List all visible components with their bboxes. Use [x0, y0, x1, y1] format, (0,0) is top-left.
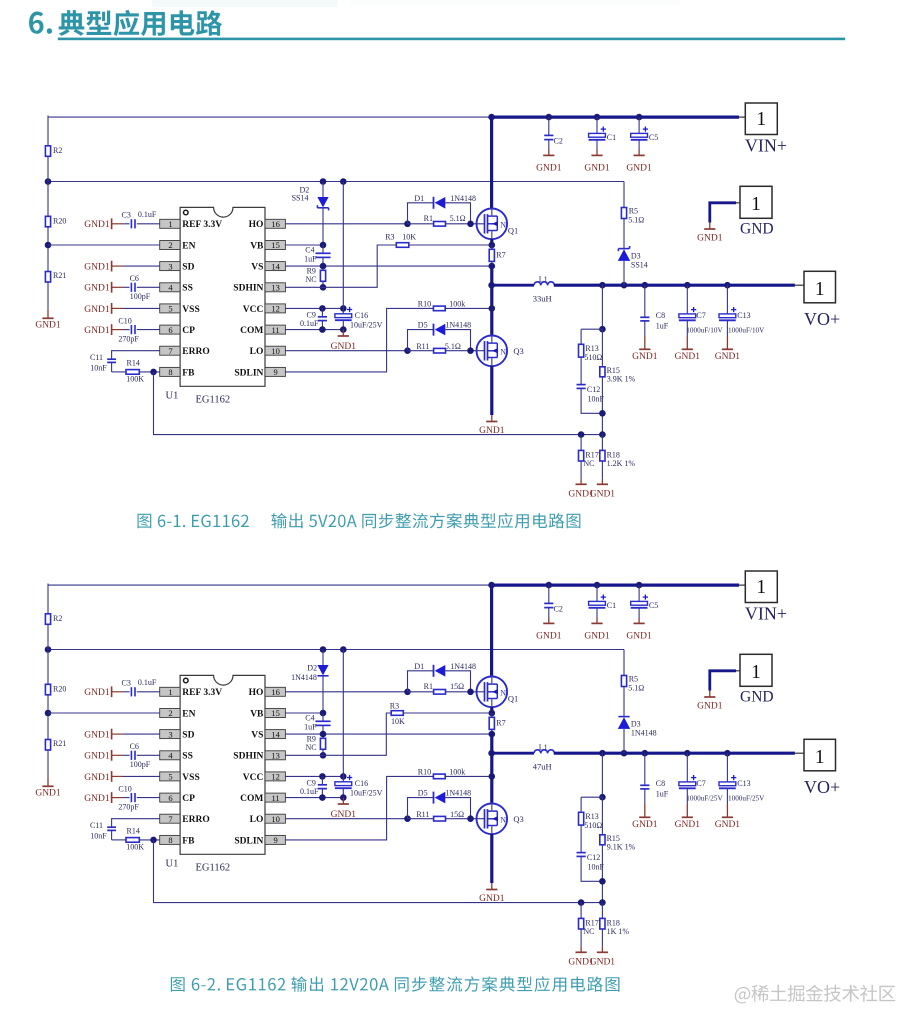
pin 8 FB (fig 6-1) — [160, 367, 195, 378]
capacitor C1 (fig 6-2) — [589, 585, 617, 617]
capacitor C12 (fig 6-1) — [577, 385, 605, 404]
svg-text:GND1: GND1 — [84, 220, 110, 230]
U1 reference designator (fig 6-2) — [166, 858, 179, 869]
svg-text:1N4148: 1N4148 — [291, 673, 317, 682]
wire FB feedback run (fig 6-1) — [154, 372, 603, 435]
svg-text:C4: C4 — [305, 245, 314, 254]
svg-text:1000uF/25V: 1000uF/25V — [728, 794, 765, 802]
ground GND1 under C2 (fig 6-2) — [536, 618, 562, 642]
capacitor C4 (fig 6-2) — [304, 713, 331, 734]
capacitor C5 (fig 6-1) — [631, 117, 659, 149]
junction VCC rail / D2 (fig 6-1) — [320, 178, 327, 185]
svg-text:C10: C10 — [118, 317, 131, 326]
svg-text:R5: R5 — [629, 207, 638, 216]
svg-text:5.1Ω: 5.1Ω — [450, 214, 466, 223]
svg-text:R14: R14 — [127, 358, 140, 367]
wire R10 to switch node (fig 6-1) — [445, 307, 492, 309]
power port GND1 at VSS (fig 6-2) — [84, 771, 159, 783]
svg-text:VIN+: VIN+ — [745, 136, 787, 156]
resistor R10 (fig 6-2) — [418, 768, 465, 779]
heading underline — [58, 38, 845, 41]
resistor R14 (fig 6-2) — [126, 826, 144, 851]
resistor R14 (fig 6-1) — [126, 358, 144, 383]
svg-text:C6: C6 — [130, 274, 139, 283]
resistor R13 (fig 6-1) — [579, 344, 603, 362]
svg-text:COM: COM — [240, 794, 263, 804]
pin 13 SDHIN (fig 6-1) — [233, 283, 285, 294]
svg-text:15: 15 — [271, 708, 280, 718]
junction COM / C16 (fig 6-2) — [340, 794, 347, 801]
svg-text:SDLIN: SDLIN — [234, 836, 263, 846]
wire VCC rail (fig 6-2) — [48, 649, 624, 651]
svg-text:Q3: Q3 — [513, 814, 523, 824]
capacitor C2 (fig 6-2) — [544, 585, 563, 617]
wire R20 to R21 (fig 6-2) — [47, 695, 49, 740]
svg-text:C2: C2 — [554, 137, 563, 146]
resistor R1 (fig 6-2) — [408, 682, 465, 694]
junction switch node (fig 6-1) — [488, 282, 495, 289]
junction Q1 gate node (fig 6-2) — [467, 689, 474, 696]
wire VO+ output rail (fig 6-1) — [554, 284, 804, 287]
svg-text:8: 8 — [168, 367, 172, 377]
ground GND1 under C8 (fig 6-1) — [632, 336, 658, 362]
wire C11 to R14 (fig 6-1) — [112, 371, 126, 373]
svg-text:C4: C4 — [305, 713, 314, 722]
ground GND1 under R17 (fig 6-1) — [568, 479, 594, 500]
svg-text:15: 15 — [271, 240, 280, 250]
svg-text:47uH: 47uH — [533, 762, 552, 772]
svg-text:VCC: VCC — [243, 773, 264, 783]
svg-text:6: 6 — [168, 325, 172, 335]
svg-text:R1: R1 — [424, 214, 433, 223]
svg-text:11: 11 — [272, 325, 280, 335]
wire COM net (fig 6-1) — [285, 329, 343, 331]
svg-text:COM: COM — [240, 326, 263, 336]
svg-text:GND1: GND1 — [84, 752, 110, 762]
resistor R21 (fig 6-1) — [45, 271, 66, 282]
svg-text:GND1: GND1 — [632, 352, 658, 362]
svg-text:1: 1 — [168, 219, 172, 229]
junction switch node (fig 6-2) — [488, 750, 495, 757]
wire VB net (fig 6-1) — [285, 244, 323, 246]
inductor L1 (fig 6-1) — [533, 275, 555, 304]
svg-text:9: 9 — [273, 835, 277, 845]
pin 6 CP (fig 6-1) — [160, 325, 195, 336]
pin 12 VCC (fig 6-2) — [243, 772, 286, 783]
resistor R15 (fig 6-1) — [600, 329, 636, 384]
junction Q3 gate node (fig 6-1) — [467, 347, 474, 354]
wire FB feedback run (fig 6-2) — [154, 840, 603, 903]
wire R11 to Q3 gate (fig 6-2) — [446, 818, 485, 820]
svg-text:C5: C5 — [649, 133, 658, 142]
resistor R15 (fig 6-2) — [600, 797, 636, 852]
ground GND1 under C1 (fig 6-1) — [584, 150, 610, 174]
svg-text:VB: VB — [250, 241, 264, 251]
svg-text:GND1: GND1 — [84, 731, 110, 741]
resistor R20 (fig 6-2) — [45, 684, 66, 695]
transistor Q3 (fig 6-1) — [477, 336, 524, 367]
resistor R17 (fig 6-1) — [579, 450, 599, 468]
port VIN+ (fig 6-1) — [745, 103, 787, 156]
svg-text:0.1uF: 0.1uF — [300, 319, 319, 328]
wire VCC net (fig 6-2) — [285, 775, 343, 777]
junction R10 switch node (fig 6-1) — [489, 305, 496, 312]
wire C16 branch (fig 6-1) — [342, 182, 344, 314]
svg-text:C13: C13 — [737, 311, 750, 320]
wire VIN+ top rail (fig 6-2) — [48, 584, 745, 614]
svg-text:C6: C6 — [130, 742, 139, 751]
svg-text:10nF: 10nF — [90, 831, 107, 840]
diode D2 (fig 6-2) — [291, 650, 329, 714]
svg-text:SS14: SS14 — [631, 260, 648, 269]
svg-text:FB: FB — [182, 368, 195, 378]
svg-text:N: N — [500, 815, 506, 824]
wire D3 to VO rail (fig 6-1) — [623, 261, 625, 285]
svg-text:C7: C7 — [696, 779, 705, 788]
junction COM / C16 (fig 6-1) — [340, 326, 347, 333]
wire GND port lead (fig 6-2) — [710, 671, 740, 691]
ground GND1 under C7 (fig 6-2) — [675, 804, 701, 830]
svg-text:GND1: GND1 — [35, 789, 61, 799]
pin 1 REF 3.3V (fig 6-1) — [160, 219, 222, 230]
wire HO net (fig 6-2) — [285, 691, 407, 693]
svg-text:13: 13 — [271, 283, 280, 293]
ground GND1 under C5 (fig 6-2) — [626, 618, 652, 642]
svg-text:5: 5 — [168, 772, 172, 782]
svg-text:0.1uF: 0.1uF — [138, 678, 157, 687]
diode D5 1N4148 (fig 6-2) — [418, 789, 471, 804]
svg-text:FB: FB — [182, 836, 195, 846]
svg-text:9.1K 1%: 9.1K 1% — [607, 843, 636, 852]
svg-text:C12: C12 — [587, 385, 600, 394]
svg-text:510Ω: 510Ω — [584, 821, 602, 830]
pin 11 COM (fig 6-1) — [240, 325, 285, 336]
junction below R7 (fig 6-2) — [489, 731, 496, 738]
wire ERRO net (fig 6-2) — [112, 819, 160, 828]
svg-text:10nF: 10nF — [90, 363, 107, 372]
capacitor C1 (fig 6-1) — [589, 117, 617, 149]
pin 9 SDLIN (fig 6-1) — [234, 367, 285, 378]
svg-text:Q3: Q3 — [513, 346, 523, 356]
junction VCC rail / C16 branch (fig 6-1) — [340, 178, 347, 185]
svg-text:9: 9 — [273, 367, 277, 377]
wire D5 branch (fig 6-1) — [408, 330, 434, 351]
svg-text:C1: C1 — [607, 133, 616, 142]
resistor R13 (fig 6-2) — [579, 812, 603, 830]
wire COM net (fig 6-2) — [285, 797, 343, 799]
wire VCC rail to R5 (fig 6-2) — [623, 650, 625, 676]
pin 3 SD (fig 6-1) — [160, 261, 195, 272]
wire D3 to VO rail (fig 6-2) — [623, 729, 625, 753]
junction Q1 gate node (fig 6-1) — [467, 221, 474, 228]
svg-text:14: 14 — [271, 261, 280, 271]
wire HO net (fig 6-1) — [285, 223, 407, 225]
junction VCC rail / R2 divider (fig 6-2) — [45, 646, 52, 653]
junction VCC / C9 (fig 6-1) — [319, 305, 326, 312]
junction VCC rail / R2 divider (fig 6-1) — [45, 178, 52, 185]
junction top rail / C2 (fig 6-1) — [546, 114, 553, 121]
svg-text:LO: LO — [250, 815, 264, 825]
resistor R21 (fig 6-2) — [45, 739, 66, 750]
junction VO rail / C7 (fig 6-1) — [684, 282, 691, 289]
wire R18 branch (fig 6-1) — [601, 435, 603, 451]
wire R13 branch top (fig 6-1) — [581, 329, 602, 344]
pin 15 VB (fig 6-1) — [250, 240, 285, 251]
svg-text:GND1: GND1 — [590, 957, 616, 967]
junction VO rail / D3 (fig 6-2) — [621, 750, 628, 757]
svg-text:12: 12 — [271, 304, 280, 314]
svg-text:GND1: GND1 — [675, 820, 701, 830]
svg-text:SD: SD — [182, 263, 194, 273]
svg-text:1000uF/10V: 1000uF/10V — [728, 326, 765, 334]
wire D1 to gate node (fig 6-1) — [445, 203, 470, 224]
power port GND1 at CP (fig 6-1) — [84, 324, 123, 336]
ground GND1 under C5 (fig 6-1) — [626, 150, 652, 174]
svg-text:D5: D5 — [418, 321, 428, 330]
svg-text:R14: R14 — [127, 826, 140, 835]
wire R15 to FB node (fig 6-1) — [601, 377, 603, 435]
svg-text:1N4148: 1N4148 — [631, 728, 657, 737]
svg-text:R13: R13 — [585, 812, 598, 821]
wire VCC net (fig 6-1) — [285, 307, 343, 309]
wire LO net (fig 6-2) — [285, 818, 407, 820]
wire R3 to switch sense (fig 6-1) — [409, 244, 492, 246]
svg-text:R18: R18 — [607, 918, 620, 927]
resistor R7 (fig 6-2) — [489, 713, 505, 734]
power port GND1 at SD (fig 6-1) — [84, 261, 159, 273]
svg-text:8: 8 — [168, 835, 172, 845]
svg-text:C3: C3 — [122, 678, 131, 687]
capacitor C7 (fig 6-2) — [679, 753, 724, 804]
svg-text:270pF: 270pF — [118, 803, 139, 812]
wire R17 to ground (fig 6-2) — [580, 929, 582, 947]
wire VIN+ top rail (fig 6-1) — [48, 116, 745, 146]
wire R21 to ground (fig 6-1) — [47, 282, 49, 309]
diode D3 (fig 6-1) — [618, 246, 648, 269]
svg-text:VB: VB — [250, 709, 264, 719]
junction VCC / C16 (fig 6-1) — [340, 305, 347, 312]
capacitor C9 (fig 6-1) — [300, 308, 327, 329]
wire D1 branch (fig 6-1) — [408, 203, 434, 224]
svg-text:D3: D3 — [631, 720, 641, 729]
svg-text:1: 1 — [168, 687, 172, 697]
junction VCC rail / C16 branch (fig 6-2) — [340, 646, 347, 653]
svg-text:N: N — [500, 220, 506, 229]
wire R13 to C12 (fig 6-1) — [580, 357, 582, 385]
svg-text:R20: R20 — [53, 684, 66, 693]
svg-text:R20: R20 — [53, 216, 66, 225]
svg-text:GND1: GND1 — [84, 773, 110, 783]
svg-text:L1: L1 — [539, 275, 548, 284]
wire switch node column (fig 6-1) — [490, 266, 493, 336]
wire SDLIN net (fig 6-2) — [285, 776, 433, 840]
svg-text:SD: SD — [182, 731, 194, 741]
svg-text:100K: 100K — [126, 843, 144, 852]
transistor Q3 (fig 6-2) — [477, 804, 524, 835]
wire R5 to D3 (fig 6-1) — [623, 219, 625, 249]
svg-text:R7: R7 — [496, 718, 505, 727]
port VO+ (fig 6-2) — [804, 739, 840, 797]
wire R1 to Q1 gate (fig 6-1) — [446, 223, 485, 225]
svg-text:Q1: Q1 — [508, 694, 518, 704]
junction FB / R18 (fig 6-2) — [599, 899, 606, 906]
resistor R3 (fig 6-2) — [390, 701, 405, 726]
svg-text:R10: R10 — [418, 300, 431, 309]
svg-text:GND1: GND1 — [536, 631, 562, 641]
U1 reference designator (fig 6-1) — [166, 390, 179, 401]
diode D2 (fig 6-1) — [292, 182, 329, 246]
svg-text:100k: 100k — [449, 300, 465, 309]
capacitor C3 (fig 6-1) — [122, 210, 160, 228]
svg-text:GND1: GND1 — [715, 820, 741, 830]
capacitor C8 (fig 6-1) — [640, 285, 669, 336]
capacitor C16 (fig 6-2) — [335, 775, 383, 798]
port VO+ (fig 6-1) — [804, 271, 840, 329]
wire R13 to C12 (fig 6-2) — [580, 825, 582, 853]
junction VS / C4 / R9 (fig 6-2) — [320, 731, 327, 738]
wire R5 to D3 (fig 6-2) — [623, 687, 625, 717]
wire VO to feedback divider (fig 6-1) — [601, 285, 603, 329]
transistor Q1 (fig 6-2) — [477, 677, 519, 708]
wire R2 to R20 (fig 6-1) — [47, 156, 49, 216]
resistor R20 (fig 6-1) — [45, 216, 66, 227]
capacitor C7 (fig 6-1) — [679, 285, 724, 336]
svg-text:GND1: GND1 — [584, 163, 610, 173]
capacitor C9 (fig 6-2) — [300, 776, 327, 797]
svg-text:C10: C10 — [118, 785, 131, 794]
svg-text:3: 3 — [168, 261, 172, 271]
junction VO rail / C8 (fig 6-2) — [642, 750, 649, 757]
watermark @稀土掘金技术社区 — [735, 985, 895, 1004]
wire Q1 drain (fig 6-1) — [490, 117, 493, 209]
junction above R7 (fig 6-1) — [489, 242, 496, 249]
svg-text:1uF: 1uF — [304, 723, 317, 732]
wire D1 branch (fig 6-2) — [408, 671, 434, 692]
pin 11 COM (fig 6-2) — [240, 793, 285, 804]
ground GND1 under R17 (fig 6-2) — [568, 947, 594, 968]
svg-text:ERRO: ERRO — [182, 815, 209, 825]
junction top rail / C5 (fig 6-1) — [636, 114, 643, 121]
wire D1 to gate node (fig 6-2) — [445, 671, 470, 692]
wire R10 to switch node (fig 6-2) — [445, 775, 492, 777]
wire R14 to FB (fig 6-2) — [139, 839, 159, 841]
ground GND1 under C16 (fig 6-2) — [331, 798, 357, 820]
svg-text:GND1: GND1 — [675, 352, 701, 362]
svg-text:L1: L1 — [539, 743, 548, 752]
svg-text:GND1: GND1 — [84, 688, 110, 698]
port GND (fig 6-2) — [740, 654, 774, 705]
transistor Q1 (fig 6-1) — [477, 209, 519, 240]
svg-text:C7: C7 — [696, 311, 705, 320]
svg-text:GND1: GND1 — [84, 284, 110, 294]
junction FB / R17 (fig 6-2) — [578, 899, 585, 906]
svg-text:100K: 100K — [126, 375, 144, 384]
svg-text:1N4148: 1N4148 — [445, 789, 471, 798]
svg-text:U1: U1 — [166, 858, 179, 869]
svg-text:14: 14 — [271, 729, 280, 739]
wire VO+ output rail (fig 6-2) — [554, 752, 804, 755]
svg-text:GND: GND — [740, 689, 774, 706]
junction FB / R18 (fig 6-1) — [599, 431, 606, 438]
ground GND1 under C1 (fig 6-2) — [584, 618, 610, 642]
capacitor C12 (fig 6-2) — [577, 853, 605, 872]
svg-text:270pF: 270pF — [118, 335, 139, 344]
svg-text:C16: C16 — [355, 311, 368, 320]
svg-text:C16: C16 — [355, 779, 368, 788]
svg-text:100k: 100k — [449, 768, 465, 777]
svg-text:10: 10 — [271, 346, 280, 356]
svg-text:GND1: GND1 — [35, 321, 61, 331]
pin 7 ERRO (fig 6-2) — [160, 814, 210, 825]
wire SDLIN net (fig 6-1) — [285, 308, 433, 372]
svg-text:VSS: VSS — [182, 305, 199, 315]
junction EN divider tap (fig 6-2) — [45, 710, 52, 717]
svg-text:5: 5 — [168, 304, 172, 314]
svg-text:R17: R17 — [585, 918, 598, 927]
svg-text:HO: HO — [249, 220, 264, 230]
svg-text:1000uF/25V: 1000uF/25V — [686, 794, 723, 802]
pin 6 CP (fig 6-2) — [160, 793, 195, 804]
resistor R7 (fig 6-1) — [489, 245, 505, 266]
svg-text:R3: R3 — [390, 701, 399, 710]
svg-text:R2: R2 — [53, 146, 62, 155]
junction below R7 (fig 6-1) — [489, 263, 496, 270]
pin 5 VSS (fig 6-1) — [160, 304, 200, 315]
caption 图 6-2. EG1162 输出 12V20A 同步整流方案典型应用电路图 — [171, 976, 620, 992]
capacitor C11 (fig 6-2) — [90, 821, 116, 840]
wire GND port lead (fig 6-1) — [710, 203, 740, 223]
junction FB / R17 (fig 6-1) — [578, 431, 585, 438]
faint cropped text remnant top edge — [152, 0, 680, 7]
svg-text:EN: EN — [182, 241, 195, 251]
resistor R17 (fig 6-2) — [579, 918, 599, 936]
svg-text:SDLIN: SDLIN — [234, 368, 263, 378]
svg-text:R13: R13 — [585, 344, 598, 353]
svg-text:C3: C3 — [122, 210, 131, 219]
svg-text:1: 1 — [815, 279, 825, 300]
wire R15 to FB node (fig 6-2) — [601, 845, 603, 903]
svg-text:C8: C8 — [656, 779, 665, 788]
resistor R3 (fig 6-1) — [385, 232, 416, 247]
svg-text:NC: NC — [306, 275, 317, 284]
wire R1 to Q1 gate (fig 6-2) — [446, 691, 485, 693]
svg-text:R17: R17 — [585, 450, 598, 459]
svg-text:NC: NC — [583, 927, 594, 936]
junction top rail / C1 (fig 6-1) — [594, 114, 601, 121]
junction VCC rail / D2 (fig 6-2) — [320, 646, 327, 653]
svg-text:VIN+: VIN+ — [745, 604, 787, 624]
junction top rail / C5 (fig 6-2) — [636, 582, 643, 589]
ground GND1 at port GND (fig 6-2) — [697, 691, 723, 712]
pin 3 SD (fig 6-2) — [160, 729, 195, 740]
heading section number and title 6. 典型应用电路 — [29, 10, 222, 36]
svg-text:13: 13 — [271, 751, 280, 761]
wire R20 to R21 (fig 6-1) — [47, 227, 49, 272]
junction top rail / Q1 drain (fig 6-2) — [488, 582, 495, 589]
svg-text:R10: R10 — [418, 768, 431, 777]
pin 4 SS (fig 6-1) — [160, 283, 193, 294]
svg-text:33uH: 33uH — [533, 294, 552, 304]
junction R15 C12 (fig 6-2) — [599, 878, 606, 885]
U1 part number EG1162 (fig 6-2) — [196, 863, 231, 874]
svg-text:5.1Ω: 5.1Ω — [628, 216, 644, 225]
wire R11 to Q3 gate (fig 6-1) — [446, 350, 485, 352]
resistor R9 (fig 6-2) — [306, 735, 326, 756]
svg-text:10: 10 — [271, 814, 280, 824]
svg-text:1: 1 — [756, 577, 766, 598]
junction VO rail / C7 (fig 6-2) — [684, 750, 691, 757]
junction SDHIN / R9 (fig 6-1) — [320, 284, 327, 291]
